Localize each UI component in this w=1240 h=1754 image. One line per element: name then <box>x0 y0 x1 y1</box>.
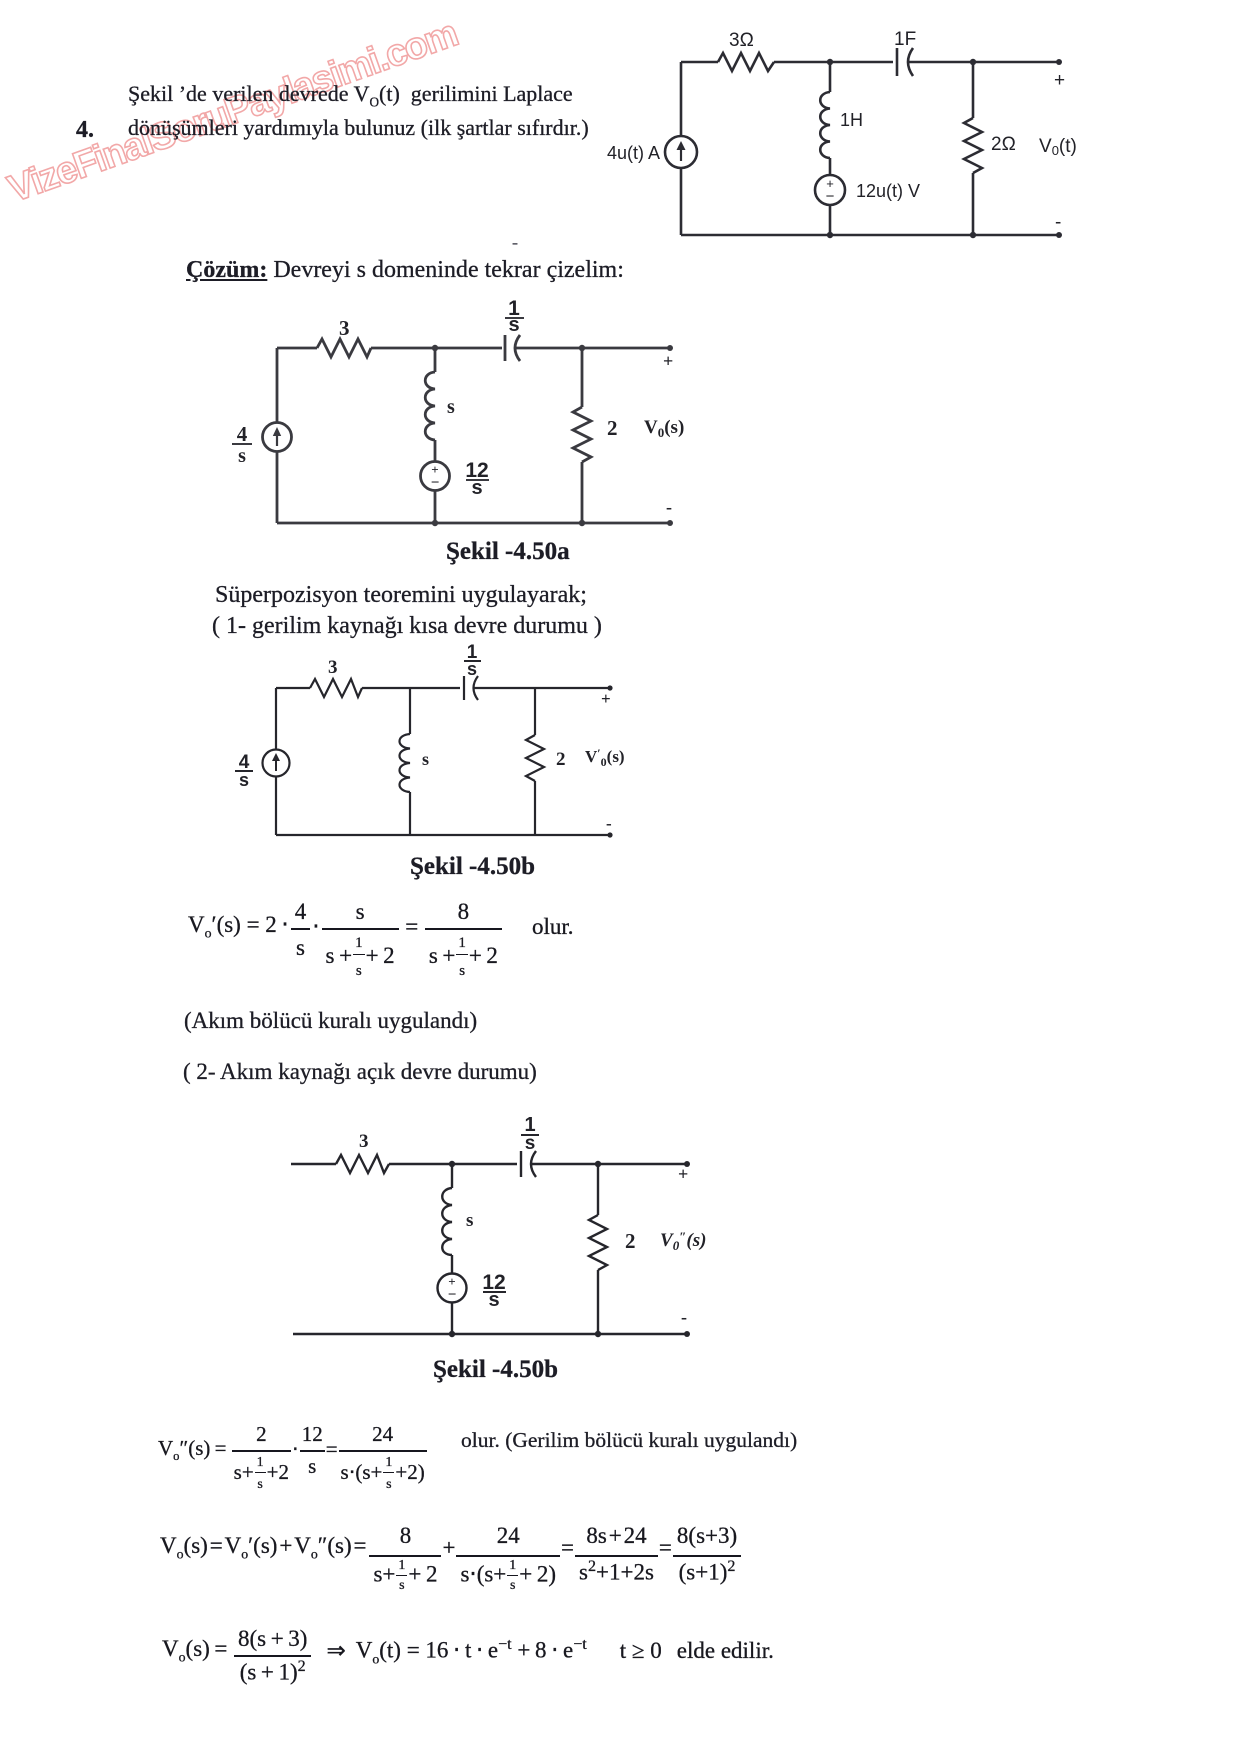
svg-text:s: s <box>422 749 429 769</box>
wire mid upper <box>434 348 437 372</box>
resistor 3 <box>336 1155 389 1173</box>
resistor 3 <box>317 339 371 357</box>
svg-text:3: 3 <box>339 316 350 340</box>
wire top mid <box>774 61 893 64</box>
label 1/s fraction <box>467 642 478 679</box>
svg-text:V0(s): V0(s) <box>644 417 684 440</box>
problem text line 1 <box>128 81 573 110</box>
wire top mid <box>389 1163 517 1165</box>
svg-text:3: 3 <box>328 657 338 678</box>
wire left vertical <box>275 688 277 750</box>
current source 4/s <box>263 423 292 452</box>
node dot bottom right branch <box>595 1331 601 1337</box>
wire right branch lower <box>581 462 584 523</box>
wire bottom <box>276 834 610 836</box>
svg-text:+: + <box>678 1164 688 1184</box>
wire mid <box>434 440 437 462</box>
caption b1 <box>410 853 535 881</box>
svg-text:+: + <box>601 689 611 708</box>
node dot top right branch <box>579 345 585 351</box>
label 4/s fraction <box>237 422 248 467</box>
node dot top right branch <box>595 1161 601 1167</box>
resistor 2 vertical <box>589 1215 607 1270</box>
wire mid branch upper <box>829 62 832 92</box>
current source 4/s <box>263 750 290 777</box>
svg-text:4: 4 <box>237 422 248 446</box>
inductor s <box>442 1188 452 1255</box>
wire left vertical <box>680 62 683 136</box>
label 1/s fraction <box>524 1114 535 1154</box>
wire left vertical lower <box>680 168 683 235</box>
inductor s <box>425 372 435 440</box>
wire right branch lower <box>534 781 536 835</box>
svg-text:−: − <box>431 475 440 491</box>
terminal dot bottom right <box>607 832 612 837</box>
equation 1: Vo'(s) <box>188 929 573 931</box>
svg-text:+: + <box>663 351 673 371</box>
wire top left (open end) <box>291 1163 336 1165</box>
wire top left <box>681 61 718 64</box>
capacitor 1/s <box>464 676 478 700</box>
terminal dot bottom right <box>684 1331 690 1337</box>
text lines <box>184 1008 477 1034</box>
svg-text:−: − <box>826 188 835 205</box>
voltage source 12/s <box>421 462 450 491</box>
wire mid <box>451 1255 453 1274</box>
wire mid branch lower <box>409 792 411 835</box>
svg-text:s: s <box>525 1133 536 1154</box>
equation 3: Vo(s) sum <box>160 1556 742 1558</box>
svg-text:3: 3 <box>359 1131 369 1152</box>
wire right branch lower <box>972 173 975 235</box>
equation 2: Vo''(s) <box>158 1451 428 1453</box>
svg-text:3Ω: 3Ω <box>729 30 754 51</box>
svg-text:-: - <box>681 1307 687 1327</box>
caption b2 <box>433 1356 558 1384</box>
wire top left <box>277 347 317 350</box>
capacitor C 1F <box>897 48 913 76</box>
svg-text:-: - <box>606 814 612 833</box>
equation 4: final <box>162 1656 774 1658</box>
wire mid lower <box>434 490 437 523</box>
svg-text:4u(t) A: 4u(t) A <box>607 143 660 163</box>
svg-text:s: s <box>447 396 455 418</box>
current source I1 4u(t) A <box>665 136 697 168</box>
node dot B top <box>970 59 976 65</box>
node dot bottom right branch <box>579 520 585 526</box>
svg-text:2: 2 <box>607 416 618 440</box>
terminal dot top right <box>1056 59 1062 65</box>
wire top right <box>531 1163 687 1165</box>
stray dash <box>512 232 518 253</box>
terminal dot top right <box>684 1161 690 1167</box>
svg-text:-: - <box>1055 212 1061 233</box>
svg-text:s: s <box>238 445 246 467</box>
wire right branch upper <box>581 348 584 407</box>
svg-text:V0″(s): V0″(s) <box>660 1229 706 1253</box>
heading Cozum <box>186 257 624 284</box>
wire bottom <box>293 1333 687 1335</box>
wire mid branch upper <box>409 688 411 734</box>
resistor 2 vertical <box>526 735 544 781</box>
resistor 2 vertical <box>573 407 591 462</box>
wire mid upper <box>451 1164 453 1188</box>
wire right branch upper <box>972 62 975 118</box>
svg-text:V′0(s): V′0(s) <box>585 746 625 769</box>
svg-text:s: s <box>239 770 249 790</box>
wire left vertical <box>276 348 279 423</box>
inductor s <box>400 734 411 792</box>
svg-text:2: 2 <box>556 749 566 770</box>
node dot top mid <box>432 345 438 351</box>
terminal dot top right <box>607 685 612 690</box>
capacitor 1/s <box>521 1151 536 1177</box>
svg-text:-: - <box>666 497 672 517</box>
wire top right <box>908 61 1059 64</box>
wire mid branch <box>829 158 832 176</box>
problem text line 2 <box>128 115 589 141</box>
node dot bottom mid <box>432 520 438 526</box>
voltage source 12/s <box>438 1274 467 1303</box>
wire right branch upper <box>597 1164 599 1215</box>
node dot A bottom <box>827 232 833 238</box>
caption a <box>446 538 570 566</box>
svg-text:1H: 1H <box>840 110 863 130</box>
wire bottom <box>681 234 1059 237</box>
resistor 3 <box>310 679 362 697</box>
resistor R2 2ohm vertical <box>964 118 982 173</box>
wire right branch upper <box>534 688 536 735</box>
wire mid lower <box>451 1302 453 1334</box>
svg-text:−: − <box>448 1287 457 1303</box>
wire top right <box>516 347 670 350</box>
wire top left <box>276 687 310 689</box>
inductor L 1H <box>820 92 830 158</box>
wire left vertical lower <box>275 776 277 835</box>
svg-text:1F: 1F <box>894 29 916 50</box>
terminal dot top right <box>667 345 673 351</box>
problem number <box>76 117 94 144</box>
svg-text:2: 2 <box>625 1229 636 1253</box>
capacitor 1/s <box>505 335 520 361</box>
node dot B bottom <box>970 232 976 238</box>
voltage source V1 12u(t) V <box>815 175 845 205</box>
svg-text:2Ω: 2Ω <box>991 134 1016 155</box>
node dot bottom mid <box>449 1331 455 1337</box>
svg-text:+: + <box>1054 70 1065 91</box>
label 12/s fraction <box>465 459 488 499</box>
superposition heading <box>215 582 587 609</box>
wire right branch lower <box>597 1270 599 1334</box>
wire bottom <box>277 522 670 525</box>
wire top mid <box>371 347 502 350</box>
label 12/s fraction <box>482 1271 505 1311</box>
label 1/s fraction <box>508 297 520 336</box>
wire mid branch lower <box>829 205 832 235</box>
svg-text:12u(t) V: 12u(t) V <box>856 181 920 201</box>
wire top mid <box>362 687 460 689</box>
label 4/s fraction <box>239 752 250 790</box>
watermark <box>3 13 463 212</box>
svg-text:s: s <box>466 1210 473 1231</box>
terminal dot bottom right <box>1056 232 1062 238</box>
wire left vertical lower <box>276 451 279 523</box>
svg-text:V0(t): V0(t) <box>1039 136 1077 158</box>
wire top right <box>474 687 610 689</box>
terminal dot bottom right <box>667 520 673 526</box>
node dot A top <box>827 59 833 65</box>
resistor R 3ohm <box>718 53 774 71</box>
node dot top mid <box>449 1161 455 1167</box>
